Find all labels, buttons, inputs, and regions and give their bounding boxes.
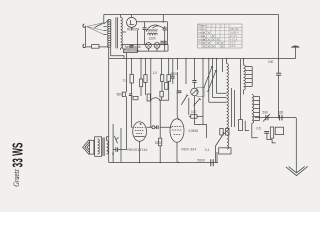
band switch arm 2 [208, 70, 217, 92]
wire: main horizontal bus [109, 58, 296, 60]
vertical bus h [177, 59, 178, 120]
svg-text:500: 500 [117, 93, 123, 97]
transformer Tr secondary winding [121, 15, 126, 50]
mains plug terminals [83, 24, 86, 48]
coil L3 [252, 95, 254, 124]
svg-text:1200: 1200 [149, 37, 156, 41]
voltage selector fan [87, 23, 104, 34]
svg-text:5000: 5000 [198, 159, 205, 163]
coil form box [239, 120, 243, 131]
dial lamp L2 [154, 43, 160, 49]
band arm U [181, 95, 188, 105]
wire: top HT line [104, 14, 279, 16]
vertical bus b2 [120, 128, 122, 163]
lower right small parts [245, 121, 283, 143]
vertical bus d [144, 59, 146, 95]
junction dots filter [137, 44, 165, 45]
wire speaker top [107, 137, 109, 141]
grid resistor R9 [189, 110, 204, 133]
band switch arm 1 [204, 66, 213, 88]
capacitor C1b under rectifier [130, 46, 134, 48]
vertical bus f [162, 59, 169, 101]
wire arcs over choke [146, 25, 164, 31]
title Graetz 33 WS [10, 143, 27, 187]
coil L2 taps [245, 67, 252, 87]
capacitor C6 [177, 91, 182, 93]
capacitor C5 (500) [117, 92, 133, 97]
jack J2 [226, 128, 229, 135]
resistor R6 [133, 96, 138, 99]
wire x234.5 vertical [234, 90, 236, 127]
coil L3 taps [254, 97, 260, 121]
band selector verticals [209, 59, 223, 103]
tuning cap row wire [255, 117, 296, 119]
rectifier tube RGN354 [127, 15, 140, 32]
vertical bus c [132, 59, 133, 128]
wire: right vertical drop from top line [278, 15, 280, 59]
vertical bus d0 [140, 59, 142, 96]
speaker LS [83, 140, 94, 155]
svg-text:5000: 5000 [171, 72, 178, 76]
wire R10 to bus [159, 146, 161, 163]
resistor R1 [123, 71, 178, 83]
junction dots bottom bus [139, 162, 218, 163]
resistor R0 [140, 79, 143, 87]
band switch arm 3 [216, 132, 226, 163]
wire: left corner drop of top line [103, 15, 105, 25]
vertical bus a [108, 47, 110, 163]
wire x231.5 vertical [231, 88, 233, 127]
coil L2 [244, 65, 246, 90]
svg-text:h: h [221, 25, 222, 27]
svg-text:0,1: 0,1 [205, 148, 210, 152]
resistor R3 [160, 75, 163, 82]
output tube RENS1374d [128, 122, 148, 163]
svg-text:REN904: REN904 [198, 29, 207, 31]
vertical bus a2 [112, 124, 114, 163]
wire bottom bus [109, 162, 217, 164]
output transformer [95, 137, 109, 157]
svg-text:0,3 A: 0,3 A [230, 45, 236, 48]
resistor R4 [171, 76, 175, 78]
coil L1 wires [226, 59, 228, 132]
svg-text:1,0: 1,0 [153, 71, 158, 75]
capacitor C10 (antenna series) [268, 59, 281, 118]
svg-text:100: 100 [191, 110, 197, 114]
capacitor C2 [163, 26, 167, 44]
svg-text:Graetz: Graetz [12, 169, 21, 187]
capacitor C9 on bottom bus [198, 159, 214, 167]
wire y124.6 row with dots [194, 125, 207, 138]
trimmer T1 [263, 111, 271, 122]
wire from rectifier [137, 15, 168, 45]
wire riser right of bottom bus [216, 152, 218, 163]
jack box [219, 148, 231, 154]
vertical bus b [126, 53, 128, 150]
wire x240.6 vertical [240, 59, 242, 120]
dial lamp L1 [146, 43, 152, 49]
ground symbol [286, 118, 308, 176]
coil L2 wires [243, 59, 245, 95]
transformer Tr primary winding [104, 20, 111, 48]
resistor box near lamps [161, 41, 166, 44]
svg-text:g: g [208, 25, 209, 27]
svg-text:33 WS: 33 WS [10, 143, 27, 168]
wire y100.2 [159, 99, 169, 101]
svg-text:s: s [226, 25, 227, 27]
band arm V [194, 98, 201, 106]
transformer core [116, 17, 118, 48]
antenna A [291, 45, 300, 58]
wire coupling bridge [151, 98, 160, 138]
trimmer T2 [278, 111, 284, 121]
resistor R3b [167, 75, 171, 82]
resistor R10 [159, 138, 162, 146]
coil L1 [227, 64, 229, 131]
wires of filter bottom [122, 44, 168, 51]
band selector rungs [209, 93, 227, 102]
resistor R7 [147, 94, 150, 101]
detector tube REN904 [170, 119, 197, 163]
switch S2 [114, 136, 118, 144]
jack J1 [220, 128, 223, 135]
potentiometer P1 [191, 81, 204, 125]
mains switch blade [95, 24, 103, 28]
svg-text:REN 904: REN 904 [182, 147, 197, 151]
vertical bus i [186, 59, 189, 115]
svg-text:530: 530 [278, 111, 284, 115]
svg-text:0,5: 0,5 [257, 127, 262, 131]
resistor R3c [165, 83, 168, 90]
svg-text:Entbrumm.: Entbrumm. [124, 49, 140, 53]
svg-text:100: 100 [268, 60, 274, 64]
resistor R2 [144, 75, 147, 83]
coupling capacitor C7 [147, 126, 172, 145]
capacitor C8 [112, 147, 127, 156]
detector section vertical x203 [202, 59, 204, 125]
vertical bus e [150, 59, 152, 100]
svg-text:0,5MΩ: 0,5MΩ [189, 129, 199, 133]
svg-text:Röhren: Röhren [198, 25, 207, 28]
svg-text:k: k [212, 25, 213, 27]
fuse Si [86, 45, 109, 49]
coil L4 [227, 132, 229, 149]
svg-text:0,1: 0,1 [123, 79, 128, 83]
svg-text:530: 530 [263, 111, 269, 115]
junction dots on bus [126, 58, 280, 60]
connection table [198, 24, 243, 48]
svg-text:G: G [112, 152, 115, 156]
capacitor C1 [143, 22, 147, 45]
svg-text:f: f [217, 25, 218, 27]
svg-text:RGN354: RGN354 [198, 39, 207, 41]
resistor R8 [160, 91, 163, 97]
filter choke Dr [148, 30, 158, 41]
svg-text:RENS1374d: RENS1374d [128, 148, 148, 152]
label box Netz [111, 45, 142, 58]
junction dot tuning row [278, 117, 279, 118]
